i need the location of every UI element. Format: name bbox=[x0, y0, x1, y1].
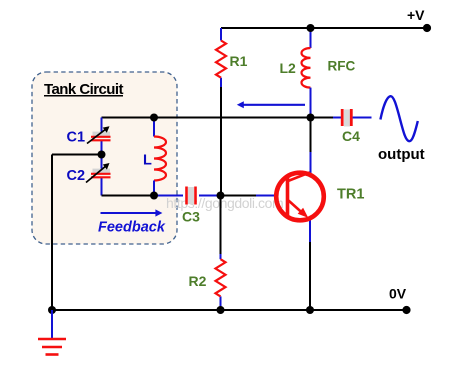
junction tank bottom / L bbox=[150, 192, 158, 200]
tank circuit enclosure bbox=[32, 72, 177, 244]
junction ground left bbox=[48, 306, 56, 314]
feedback arrow (tank) bbox=[101, 209, 163, 216]
wire tank top / feedback net bbox=[102, 117, 311, 119]
inductor L bbox=[154, 118, 166, 196]
resistor R1 bbox=[216, 41, 226, 78]
wire divider column bbox=[220, 28, 223, 310]
junction R2 bottom bbox=[217, 306, 225, 314]
terminal +V bbox=[423, 24, 431, 32]
svg-text:Feedback: Feedback bbox=[98, 220, 166, 236]
capacitor C3 bbox=[187, 187, 196, 205]
wire bottom rail 0V bbox=[52, 309, 407, 311]
svg-text:Tank Circuit: Tank Circuit bbox=[44, 81, 124, 98]
junction emitter bottom bbox=[306, 306, 314, 314]
wire base net bbox=[154, 195, 275, 197]
svg-text:R1: R1 bbox=[230, 53, 248, 69]
ground bbox=[38, 310, 66, 355]
svg-text:C2: C2 bbox=[67, 168, 86, 184]
svg-text:C3: C3 bbox=[182, 209, 200, 225]
svg-text:output: output bbox=[378, 146, 425, 163]
wire collector bbox=[310, 118, 312, 175]
inductor L2 / RFC bbox=[302, 28, 311, 118]
svg-text:C1: C1 bbox=[67, 130, 86, 146]
svg-text:+V: +V bbox=[407, 7, 425, 23]
junction base node bbox=[217, 192, 225, 200]
svg-text:C4: C4 bbox=[342, 128, 360, 144]
svg-text:RFC: RFC bbox=[328, 59, 356, 74]
wire tank bottom bbox=[102, 195, 155, 197]
capacitor C1 (variable) bbox=[87, 126, 111, 143]
wire emitter bbox=[309, 219, 311, 310]
svg-text:R2: R2 bbox=[189, 273, 207, 289]
wire capacitor column bbox=[101, 118, 103, 196]
svg-text:L2: L2 bbox=[280, 60, 297, 76]
junction top rail / RFC bbox=[307, 24, 315, 32]
junction C1-C2 mid node bbox=[98, 151, 106, 159]
svg-text:TR1: TR1 bbox=[337, 187, 364, 203]
junction tank top / L bbox=[150, 114, 158, 122]
wire top rail bbox=[221, 27, 427, 29]
capacitor C4 bbox=[333, 109, 372, 127]
output sine wave bbox=[380, 96, 417, 141]
wire collector node to C4 bbox=[311, 117, 334, 119]
resistor R2 bbox=[216, 259, 226, 296]
feedback arrow (collector to tank) bbox=[237, 101, 305, 108]
svg-text:L: L bbox=[143, 153, 152, 169]
terminal 0V bbox=[402, 306, 410, 314]
junction collector node bbox=[307, 114, 315, 122]
svg-text:0V: 0V bbox=[389, 286, 407, 302]
transistor TR1 bbox=[276, 172, 324, 220]
capacitor C2 (variable) bbox=[86, 163, 111, 183]
wire tank mid node to ground column bbox=[52, 155, 102, 311]
